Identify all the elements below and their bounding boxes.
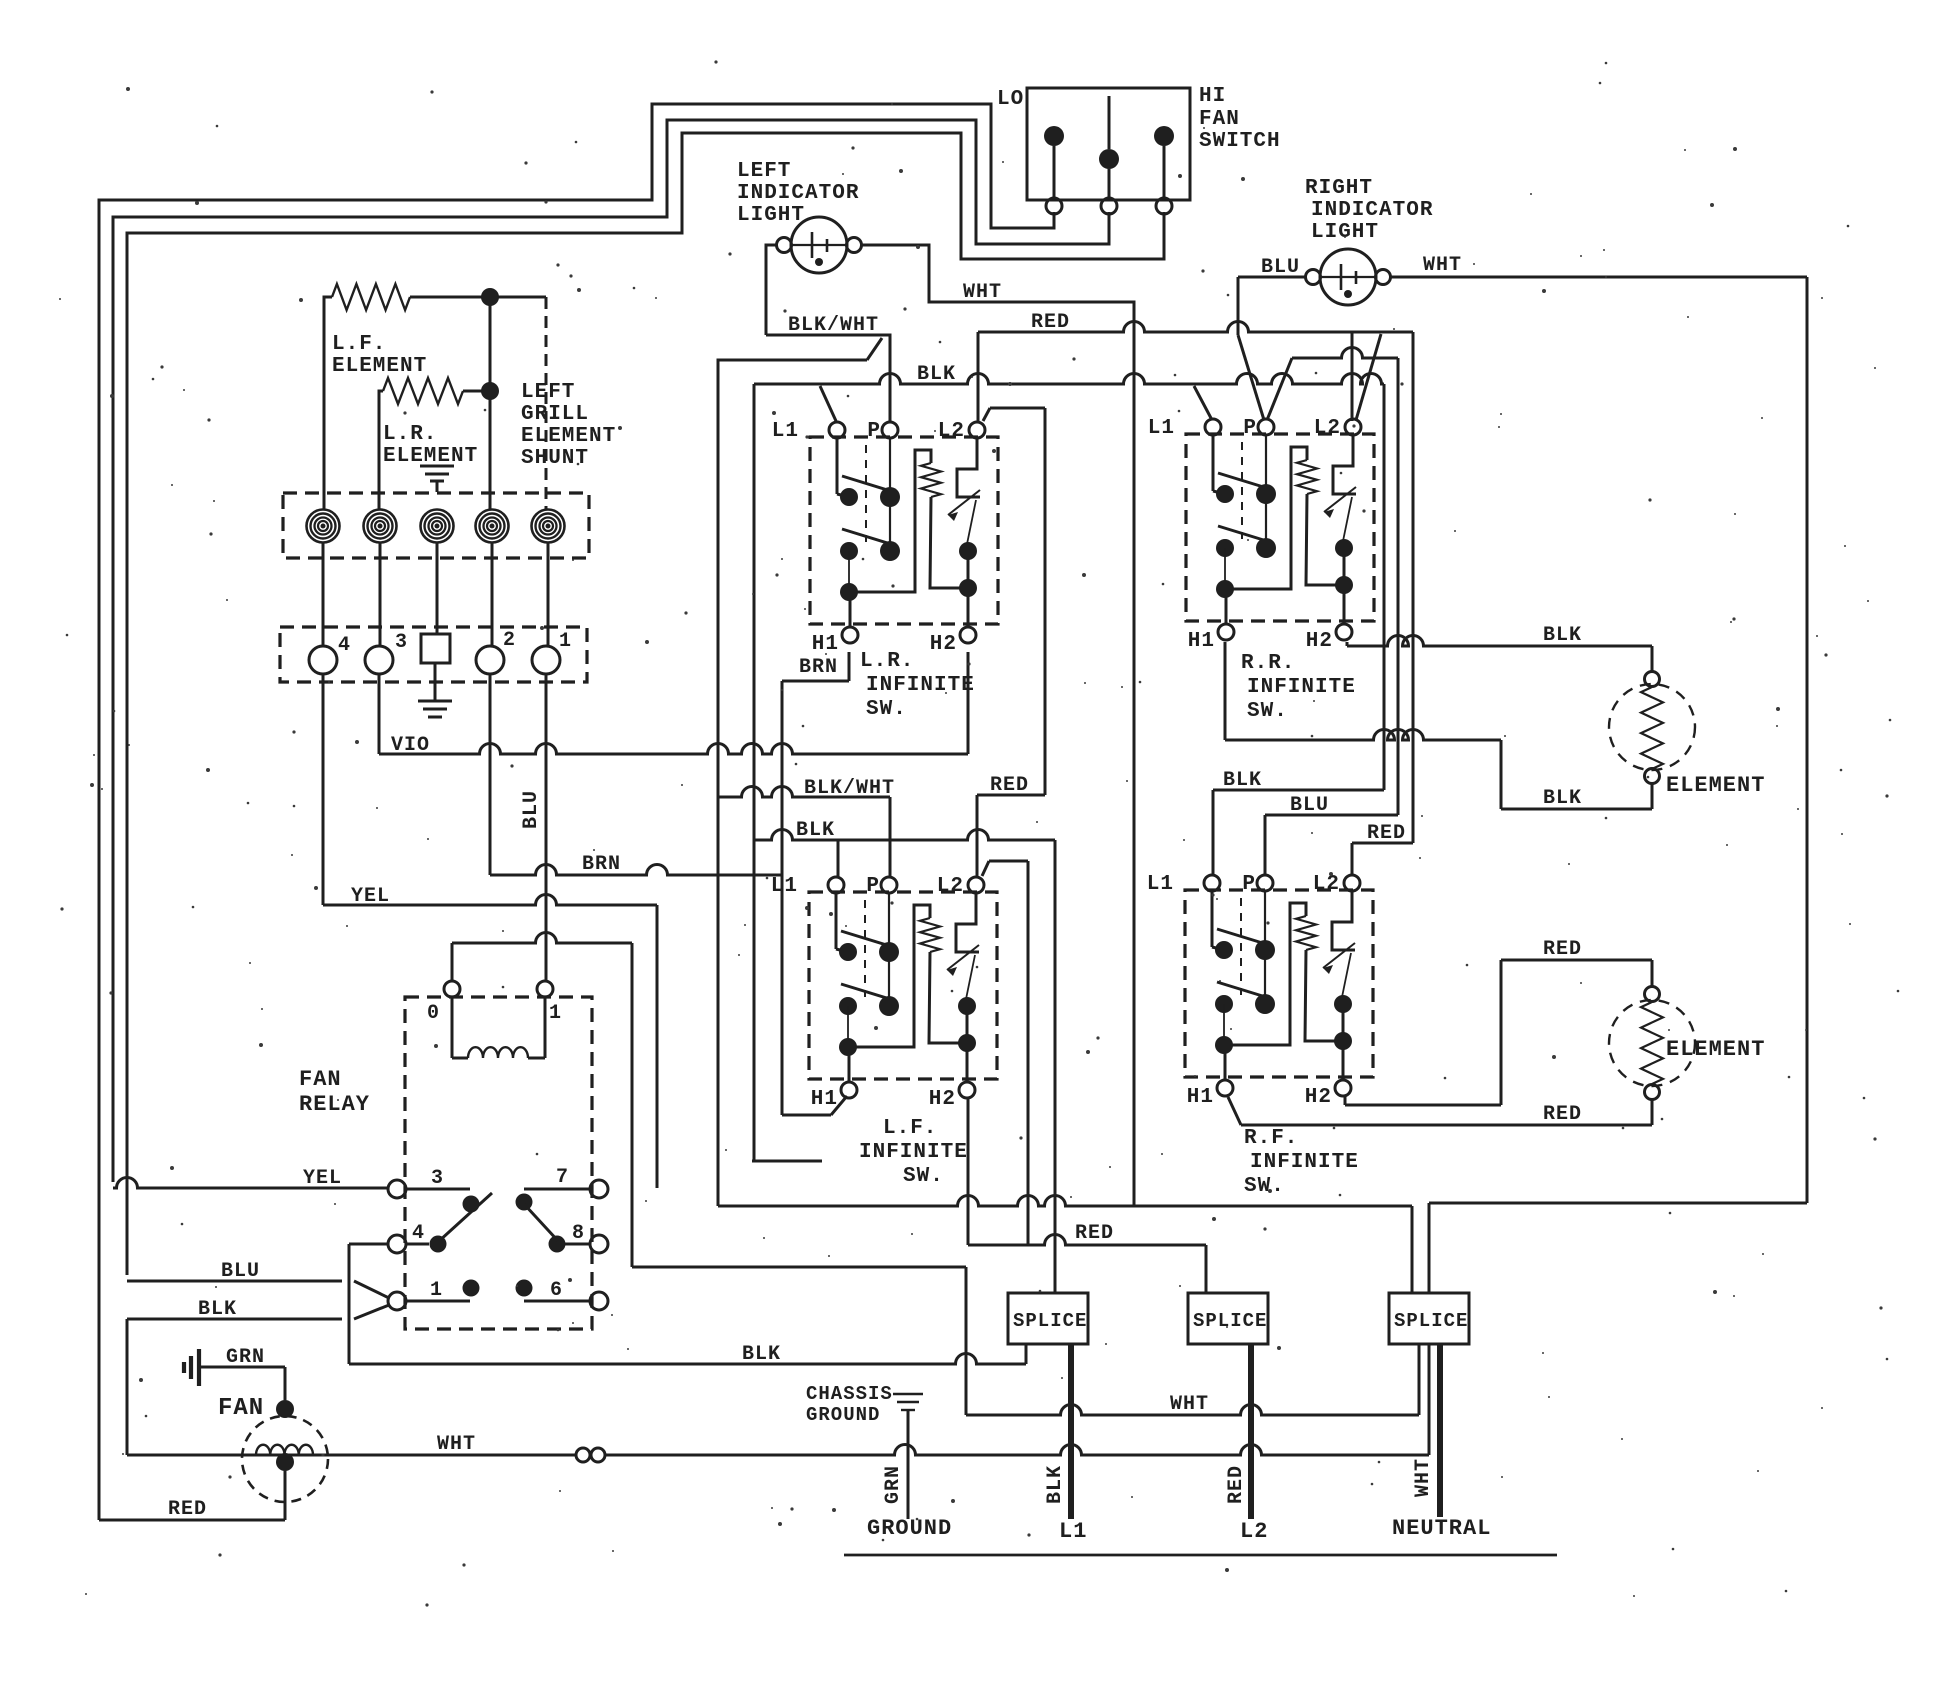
label GRN	[226, 1346, 265, 1369]
svg-text:RED: RED	[168, 1498, 207, 1521]
wire BLK top bus	[752, 374, 1384, 1162]
element R.F. (dashed circle)	[1609, 987, 1695, 1100]
wire BLK R.R. H2 to element	[1347, 636, 1652, 673]
label VIO	[391, 734, 430, 757]
wire WHT splice3 branch	[632, 1267, 1419, 1415]
svg-text:L1: L1	[1148, 417, 1175, 440]
wire element junction vertical	[489, 297, 492, 510]
label relay 1	[430, 1279, 443, 1302]
fan motor	[242, 1400, 328, 1520]
svg-text:LEFT: LEFT	[521, 381, 575, 404]
svg-text:L.R.: L.R.	[383, 423, 437, 446]
svg-text:P: P	[867, 420, 881, 443]
svg-text:WHT: WHT	[1170, 1393, 1209, 1416]
label WHT 4	[1170, 1393, 1209, 1416]
svg-text:ELEMENT: ELEMENT	[1666, 773, 1765, 798]
svg-text:BLK: BLK	[917, 363, 956, 386]
relay contact dots bottom	[463, 1280, 533, 1297]
wire BLK bottom bus	[349, 1344, 1026, 1364]
svg-text:INFINITE: INFINITE	[859, 1141, 968, 1164]
label BLK 5	[742, 1343, 781, 1366]
svg-text:P: P	[1242, 873, 1256, 896]
svg-text:1: 1	[430, 1279, 443, 1302]
svg-text:BLU: BLU	[221, 1260, 260, 1283]
relay coil	[452, 997, 545, 1058]
svg-text:RED: RED	[1367, 822, 1406, 845]
wire RED R.F. H2 to element	[1345, 960, 1652, 1105]
fan switch pole 1 (LO)	[1044, 126, 1064, 214]
svg-text:L2: L2	[937, 875, 964, 898]
svg-text:L1: L1	[772, 420, 799, 443]
svg-text:H1: H1	[1187, 1086, 1214, 1109]
label RED 5	[1075, 1222, 1114, 1245]
svg-text:BLK: BLK	[1044, 1465, 1067, 1504]
svg-text:BLK: BLK	[1223, 769, 1262, 792]
svg-text:GROUND: GROUND	[867, 1516, 952, 1541]
label RED 4	[168, 1498, 207, 1521]
svg-text:RIGHT: RIGHT	[1305, 177, 1373, 200]
svg-text:L2: L2	[938, 420, 965, 443]
svg-text:WHT: WHT	[1423, 254, 1462, 277]
infinite switch R.R.	[1148, 417, 1374, 653]
resistor L.R. element	[379, 378, 499, 510]
svg-text:L1: L1	[1147, 873, 1174, 896]
svg-text:FAN: FAN	[218, 1395, 264, 1422]
wire BLU to relay	[127, 1281, 389, 1298]
wire BLU indicator to R.R. P	[1238, 277, 1306, 420]
label BLU	[1261, 256, 1300, 279]
svg-text:RED: RED	[1075, 1222, 1114, 1245]
label L.F. ELEMENT	[332, 333, 427, 378]
svg-text:6: 6	[550, 1279, 563, 1302]
svg-text:GRILL: GRILL	[521, 403, 589, 426]
svg-text:8: 8	[572, 1222, 585, 1245]
svg-text:H2: H2	[929, 1088, 956, 1111]
label BRN	[799, 656, 838, 679]
svg-text:LEFT: LEFT	[737, 160, 791, 183]
wire RED L.F. L2 bracket	[982, 861, 1028, 876]
label BLK rotated	[1044, 1465, 1067, 1504]
wire RED R.F. H1 to element bottom	[1228, 1097, 1652, 1125]
connector surface-element coils (5)	[283, 493, 589, 558]
splice 2	[1188, 1293, 1268, 1344]
svg-text:INFINITE: INFINITE	[866, 674, 975, 697]
label LO	[997, 88, 1024, 111]
svg-text:BRN: BRN	[582, 853, 621, 876]
svg-text:7: 7	[556, 1166, 569, 1189]
wire BLK to relay	[127, 1305, 389, 1455]
svg-text:H2: H2	[930, 633, 957, 656]
label pins 4 3 2 1	[338, 629, 572, 657]
wires coils to plug	[323, 542, 548, 647]
label BLK 3	[1223, 769, 1262, 792]
svg-text:BLK: BLK	[198, 1298, 237, 1321]
svg-text:SW.: SW.	[866, 698, 907, 721]
bottom terminal underline	[844, 1554, 1557, 1557]
svg-text:3: 3	[431, 1167, 444, 1190]
svg-text:BLK: BLK	[1543, 787, 1582, 810]
svg-text:BLU: BLU	[520, 790, 543, 829]
svg-text:LO: LO	[997, 88, 1024, 111]
label GROUND	[867, 1516, 952, 1541]
fan relay box	[405, 997, 592, 1329]
right indicator light	[1306, 249, 1391, 305]
label BLK element bottom	[1543, 787, 1582, 810]
wire relay 4 to BLK bus	[349, 1244, 388, 1364]
wire BRN pin2 bus	[490, 674, 782, 875]
wire BLK/WHT lower bus	[718, 360, 867, 1206]
svg-text:H1: H1	[1188, 630, 1215, 653]
infinite switch L.R.	[772, 420, 998, 656]
svg-text:SPLICE: SPLICE	[1394, 1310, 1468, 1332]
fan switch pole 3 (HI)	[1154, 126, 1174, 214]
svg-text:SHUNT: SHUNT	[521, 447, 589, 470]
label LEFT INDICATOR LIGHT	[737, 160, 859, 227]
wire WHT fan line	[127, 1344, 1429, 1462]
svg-text:R.F.: R.F.	[1244, 1127, 1298, 1150]
wire left grill shunt (dashed)	[545, 297, 548, 510]
svg-text:NEUTRAL: NEUTRAL	[1392, 1516, 1491, 1541]
infinite switch L.F.	[771, 875, 997, 1111]
label YEL 2	[351, 885, 390, 908]
svg-text:RED: RED	[1543, 1103, 1582, 1126]
wire BLK R.R. H1 to element bottom	[1225, 642, 1652, 809]
svg-text:WHT: WHT	[437, 1433, 476, 1456]
svg-text:L2: L2	[1314, 417, 1341, 440]
svg-text:BLK: BLK	[1543, 624, 1582, 647]
ground above coil 3	[420, 466, 454, 492]
svg-text:YEL: YEL	[351, 885, 390, 908]
svg-text:0: 0	[427, 1002, 440, 1025]
connector plug box	[280, 627, 587, 682]
relay terminal 3	[388, 1167, 470, 1198]
label BLU rotated	[520, 790, 543, 829]
svg-text:LIGHT: LIGHT	[1311, 221, 1379, 244]
label BLK 2	[796, 819, 835, 842]
svg-text:L.R.: L.R.	[860, 650, 914, 673]
label RED 2	[990, 774, 1029, 797]
svg-text:GRN: GRN	[882, 1465, 905, 1504]
wire RED top bus	[978, 322, 1413, 423]
label RED 3	[1367, 822, 1406, 845]
svg-text:LIGHT: LIGHT	[737, 204, 805, 227]
svg-text:SPLICE: SPLICE	[1013, 1310, 1087, 1332]
wire RED to L.F. L2	[977, 795, 1045, 877]
label ELEMENT 1	[1666, 773, 1765, 798]
label BLU 2	[1290, 794, 1329, 817]
svg-text:SW.: SW.	[1247, 700, 1288, 723]
svg-text:H2: H2	[1306, 630, 1333, 653]
resistor L.F. element	[324, 284, 546, 510]
label FAN RELAY	[299, 1067, 370, 1117]
relay bottom-left terminal	[388, 1292, 470, 1310]
wire BLK/WHT diagonal join	[867, 338, 882, 360]
svg-text:L1: L1	[1059, 1519, 1087, 1544]
label WHT 2	[1423, 254, 1462, 277]
svg-text:ELEMENT: ELEMENT	[332, 355, 427, 378]
svg-text:ELEMENT: ELEMENT	[1666, 1037, 1765, 1062]
label BLK/WHT 2	[804, 777, 895, 800]
wire YEL pin4	[323, 674, 657, 1188]
svg-text:L.F.: L.F.	[332, 333, 386, 356]
label R.F. INFINITE SW.	[1244, 1127, 1359, 1198]
wire RED right riser to R.F. L2	[1352, 332, 1413, 876]
svg-text:L.F.: L.F.	[883, 1117, 937, 1140]
wire L2 feed	[1248, 1344, 1254, 1519]
wire BLK/WHT bus to L.R. P	[766, 335, 890, 422]
svg-text:P: P	[866, 875, 880, 898]
ground GRN	[184, 1349, 285, 1400]
relay contact dots left	[430, 1193, 493, 1253]
relay contact dots right	[516, 1194, 566, 1253]
svg-text:SW.: SW.	[1244, 1175, 1285, 1198]
label RED	[1031, 311, 1070, 334]
label RED element top	[1543, 938, 1582, 961]
relay terminal 7	[524, 1166, 608, 1198]
wire BLK/WHT indicator drop	[766, 245, 777, 335]
svg-text:R.R.: R.R.	[1241, 652, 1295, 675]
chassis ground symbol	[893, 1394, 923, 1519]
ground below plug	[418, 663, 452, 717]
splice 1	[1008, 1293, 1088, 1344]
wire WHT right indicator to splice3	[1390, 277, 1807, 1293]
wire relay coil-0 to neutral riser	[452, 933, 632, 1268]
label L.F. INFINITE SW.	[859, 1117, 968, 1188]
label BLK 4	[198, 1298, 237, 1321]
label BLK/WHT	[788, 314, 879, 337]
svg-text:INFINITE: INFINITE	[1250, 1151, 1359, 1174]
wire NEUTRAL feed	[1437, 1344, 1443, 1517]
svg-text:4: 4	[338, 634, 351, 657]
label WHT rotated	[1412, 1458, 1435, 1497]
label WHT	[963, 281, 1002, 304]
label YEL	[303, 1167, 342, 1190]
wire BLU pin1 to fan relay coil	[545, 674, 548, 981]
svg-text:2: 2	[503, 629, 516, 652]
svg-text:3: 3	[395, 631, 408, 654]
label HI FAN SWITCH	[1199, 85, 1281, 153]
relay coil terminal 1	[537, 981, 562, 1025]
wire L1 feed	[1068, 1344, 1074, 1519]
fan switch pole 2 (MID)	[1099, 96, 1119, 214]
label BLU 3	[221, 1260, 260, 1283]
svg-text:BLK/WHT: BLK/WHT	[804, 777, 895, 800]
svg-text:1: 1	[549, 1002, 562, 1025]
label RED rotated	[1225, 1465, 1248, 1504]
label L.R. ELEMENT	[383, 423, 478, 468]
svg-text:SPLICE: SPLICE	[1193, 1310, 1267, 1332]
wire RED fan return	[99, 1519, 285, 1522]
svg-text:GROUND: GROUND	[806, 1404, 880, 1426]
wire MID stair (fan switch middle pole)	[113, 120, 1109, 1182]
splice 3	[1389, 1293, 1469, 1344]
wire VIO pin3 to L.R. H2	[379, 652, 968, 754]
svg-text:SW.: SW.	[903, 1165, 944, 1188]
svg-text:YEL: YEL	[303, 1167, 342, 1190]
wire BLK to L.F. L1	[754, 830, 1055, 1294]
svg-text:4: 4	[412, 1222, 425, 1245]
left indicator light	[777, 217, 862, 273]
label L2	[1240, 1519, 1268, 1544]
svg-text:BLK/WHT: BLK/WHT	[788, 314, 879, 337]
relay terminal 8	[557, 1222, 608, 1253]
wire BLU bus to R.F. P	[1265, 348, 1398, 876]
svg-text:INFINITE: INFINITE	[1247, 676, 1356, 699]
label GRN rotated	[882, 1465, 905, 1504]
label L.R. INFINITE SW.	[860, 650, 975, 721]
svg-text:GRN: GRN	[226, 1346, 265, 1369]
label LEFT GRILL ELEMENT SHUNT	[521, 381, 616, 470]
svg-text:HI: HI	[1199, 85, 1226, 108]
svg-text:L2: L2	[1313, 873, 1340, 896]
fan switch box	[1027, 88, 1190, 200]
label NEUTRAL	[1392, 1516, 1491, 1541]
wire WHT left-indicator to splice3 riser	[861, 245, 1134, 1205]
wire RED L.R. L2 bracket	[983, 408, 1045, 795]
label ELEMENT 2	[1666, 1037, 1765, 1062]
relay terminal 4	[388, 1222, 429, 1253]
wire RED to splice2	[968, 861, 1206, 1293]
label RED element bottom	[1543, 1103, 1582, 1126]
wire BRN riser to L.R. H1 and L.F. H1	[782, 652, 849, 1115]
svg-text:SWITCH: SWITCH	[1199, 130, 1281, 153]
label CHASSIS GROUND	[806, 1383, 893, 1426]
svg-text:L2: L2	[1240, 1519, 1268, 1544]
svg-text:FAN: FAN	[1199, 108, 1240, 131]
label R.R. INFINITE SW.	[1241, 652, 1356, 723]
svg-text:FAN: FAN	[299, 1067, 342, 1092]
relay terminal 6	[524, 1279, 608, 1310]
svg-text:CHASSIS: CHASSIS	[806, 1383, 893, 1405]
svg-text:RED: RED	[1225, 1465, 1248, 1504]
wire YEL from left to relay 3	[113, 1178, 389, 1189]
wire BRN to L.F. H1	[782, 1096, 847, 1115]
wire HI stair (fan switch right pole)	[127, 133, 1164, 1275]
svg-text:RELAY: RELAY	[299, 1092, 370, 1117]
svg-text:H1: H1	[812, 633, 839, 656]
svg-text:1: 1	[559, 630, 572, 653]
wire WHT bottom bus to splice3	[718, 1196, 1412, 1294]
wire LO stair (outer left border to fan switch)	[99, 104, 1054, 1520]
svg-text:RED: RED	[990, 774, 1029, 797]
svg-text:INDICATOR: INDICATOR	[737, 182, 859, 205]
label RIGHT INDICATOR LIGHT	[1305, 177, 1433, 244]
svg-text:VIO: VIO	[391, 734, 430, 757]
svg-text:RED: RED	[1543, 938, 1582, 961]
svg-text:BLK: BLK	[742, 1343, 781, 1366]
infinite switch R.F.	[1147, 873, 1373, 1109]
label BRN 2	[582, 853, 621, 876]
wire BLK to R.F. L1	[1213, 790, 1384, 876]
svg-text:L1: L1	[771, 875, 798, 898]
label L1	[1059, 1519, 1087, 1544]
svg-text:INDICATOR: INDICATOR	[1311, 199, 1433, 222]
svg-text:BLU: BLU	[1290, 794, 1329, 817]
svg-text:P: P	[1243, 417, 1257, 440]
svg-text:BRN: BRN	[799, 656, 838, 679]
wire BLK/WHT to L.F. P	[718, 787, 890, 878]
label WHT 3	[437, 1433, 476, 1456]
svg-text:RED: RED	[1031, 311, 1070, 334]
element R.R. (dashed circle)	[1609, 672, 1695, 784]
wire RED R.R. L2 vertical	[1352, 332, 1381, 421]
svg-text:H1: H1	[811, 1088, 838, 1111]
svg-text:WHT: WHT	[963, 281, 1002, 304]
relay coil terminal 0	[427, 981, 460, 1025]
label BLK top bus	[917, 363, 956, 386]
svg-text:BLK: BLK	[796, 819, 835, 842]
svg-text:ELEMENT: ELEMENT	[521, 425, 616, 448]
label BLK element top	[1543, 624, 1582, 647]
svg-text:H2: H2	[1305, 1086, 1332, 1109]
svg-text:WHT: WHT	[1412, 1458, 1435, 1497]
label FAN	[218, 1395, 264, 1422]
